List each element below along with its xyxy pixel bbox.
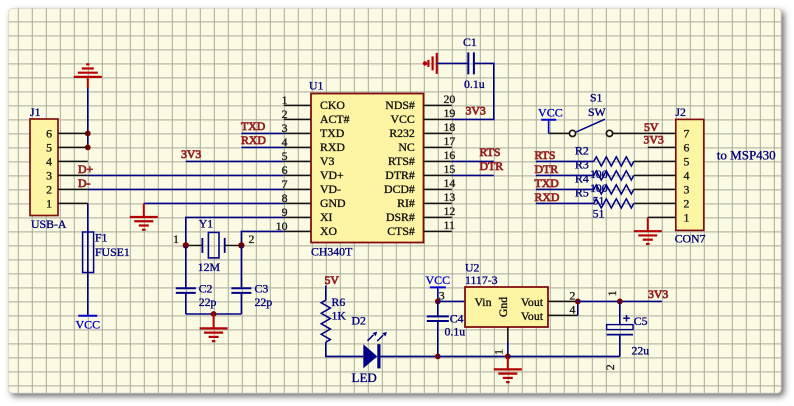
ground	[634, 231, 662, 244]
svg-text:2: 2	[683, 197, 689, 211]
svg-text:1K: 1K	[332, 309, 347, 323]
svg-text:18: 18	[444, 120, 456, 134]
svg-text:RTS#: RTS#	[388, 154, 415, 168]
svg-text:4: 4	[570, 302, 576, 316]
svg-text:1: 1	[683, 211, 689, 225]
svg-text:3: 3	[439, 288, 445, 302]
crystal Y1	[173, 217, 255, 274]
wire VCC from J1 pin 1	[87, 203, 89, 315]
ground stem	[647, 217, 649, 231]
svg-text:22u: 22u	[632, 343, 650, 357]
svg-text:7: 7	[282, 177, 288, 191]
power port VCC	[75, 316, 100, 332]
wire	[634, 188, 648, 190]
connector J1	[30, 105, 88, 231]
wire	[240, 245, 242, 288]
wire RXD	[536, 202, 594, 204]
resistor R2 100	[575, 143, 634, 181]
svg-text:R5: R5	[575, 185, 589, 199]
svg-text:D+: D+	[78, 162, 94, 176]
svg-text:DTR: DTR	[535, 162, 559, 176]
svg-text:13: 13	[444, 190, 456, 204]
svg-text:11: 11	[444, 218, 455, 232]
svg-text:to MSP430: to MSP430	[717, 147, 776, 162]
svg-text:Vout: Vout	[521, 309, 544, 323]
svg-text:5V: 5V	[325, 273, 340, 287]
svg-text:12M: 12M	[198, 260, 221, 274]
svg-text:2: 2	[603, 364, 617, 370]
ground (rotated)	[423, 53, 437, 74]
junction	[617, 299, 623, 305]
svg-text:3V3: 3V3	[644, 133, 664, 147]
svg-text:S1: S1	[590, 90, 603, 104]
junction	[575, 299, 581, 305]
wire	[326, 342, 364, 356]
junction	[85, 131, 91, 137]
svg-text:Vin: Vin	[475, 295, 492, 309]
wire	[438, 355, 508, 357]
junction	[238, 242, 244, 248]
svg-text:17: 17	[444, 134, 456, 148]
svg-text:1117-3: 1117-3	[465, 273, 498, 287]
wire TXD	[536, 188, 594, 190]
wire GND	[144, 202, 284, 204]
wire	[325, 286, 327, 301]
svg-text:VD+: VD+	[320, 168, 344, 182]
wire	[634, 202, 648, 204]
svg-text:GND: GND	[320, 196, 346, 210]
ground stem	[507, 356, 509, 369]
svg-text:TXD: TXD	[320, 126, 345, 140]
svg-text:V3: V3	[320, 154, 335, 168]
svg-text:CKO: CKO	[320, 98, 345, 112]
svg-text:RTS: RTS	[535, 148, 556, 162]
power port VCC	[425, 273, 450, 302]
wire 3V3 out	[578, 300, 662, 302]
svg-text:0.1u: 0.1u	[445, 324, 466, 338]
svg-text:14: 14	[444, 176, 456, 190]
svg-text:C5: C5	[634, 314, 648, 328]
wire 5V	[613, 132, 648, 134]
svg-text:2: 2	[570, 288, 576, 302]
svg-text:4: 4	[683, 169, 689, 183]
svg-text:6: 6	[282, 163, 288, 177]
svg-text:CH340T: CH340T	[311, 245, 353, 259]
capacitor C2	[176, 282, 217, 309]
svg-text:XI: XI	[320, 210, 333, 224]
capacitor C5 22u	[603, 290, 649, 370]
wire	[508, 355, 620, 357]
wire	[634, 174, 648, 176]
svg-text:2: 2	[282, 107, 288, 121]
wire DTR	[536, 174, 594, 176]
svg-text:1: 1	[173, 232, 179, 246]
wire RTS	[452, 160, 494, 162]
wire D+	[88, 174, 284, 176]
svg-text:22p: 22p	[255, 295, 273, 309]
resistor R5 51	[575, 185, 634, 220]
power port VCC	[538, 105, 563, 133]
ground stem	[213, 314, 215, 328]
wire	[185, 245, 187, 288]
svg-text:USB-A: USB-A	[31, 217, 67, 231]
svg-text:U1: U1	[309, 79, 324, 93]
svg-text:TXD: TXD	[241, 119, 266, 133]
wire	[437, 321, 439, 356]
svg-text:R232: R232	[389, 126, 415, 140]
svg-text:VCC: VCC	[538, 105, 563, 119]
svg-text:CTS#: CTS#	[387, 224, 415, 238]
resistor R3 100	[575, 157, 634, 195]
wire XO	[241, 231, 283, 245]
junction	[85, 145, 91, 151]
svg-text:6: 6	[46, 127, 52, 141]
regulator U2 1117-3	[439, 260, 578, 355]
resistor R6 1K	[321, 295, 346, 342]
svg-text:VD-: VD-	[320, 182, 341, 196]
svg-text:1: 1	[492, 349, 506, 355]
svg-text:2: 2	[46, 183, 52, 197]
svg-text:5: 5	[46, 141, 52, 155]
wire	[577, 301, 579, 315]
wire	[438, 300, 465, 302]
wire	[437, 301, 439, 316]
svg-text:0.1u: 0.1u	[464, 77, 485, 91]
junction	[505, 354, 511, 360]
svg-text:VCC: VCC	[75, 318, 100, 332]
svg-text:R4: R4	[575, 171, 589, 185]
wire	[452, 63, 494, 119]
junction	[183, 242, 189, 248]
svg-text:C1: C1	[463, 35, 477, 49]
svg-text:XO: XO	[320, 224, 338, 238]
capacitor C1	[463, 35, 485, 91]
wire	[240, 293, 242, 314]
wire	[87, 88, 89, 147]
connector J2	[648, 105, 706, 245]
svg-text:D-: D-	[78, 176, 91, 190]
svg-text:5: 5	[683, 155, 689, 169]
svg-text:3: 3	[683, 183, 689, 197]
wire	[437, 62, 469, 64]
svg-text:VCC: VCC	[391, 112, 415, 126]
svg-text:22p: 22p	[199, 295, 217, 309]
svg-text:C3: C3	[255, 282, 269, 296]
svg-text:D2: D2	[352, 313, 367, 327]
svg-text:Gnd: Gnd	[496, 297, 510, 317]
svg-text:20: 20	[444, 92, 456, 106]
svg-text:RI#: RI#	[397, 196, 415, 210]
svg-text:F1: F1	[95, 231, 108, 245]
svg-text:RTS: RTS	[480, 145, 501, 159]
capacitor C4	[427, 312, 465, 339]
svg-text:3V3: 3V3	[181, 147, 201, 161]
svg-text:RXD: RXD	[535, 190, 560, 204]
svg-text:SW: SW	[588, 105, 607, 119]
svg-text:DSR#: DSR#	[386, 210, 415, 224]
svg-text:Y1: Y1	[199, 217, 214, 231]
ground stem	[143, 203, 145, 217]
svg-text:FUSE1: FUSE1	[95, 245, 130, 259]
svg-text:J1: J1	[30, 105, 41, 119]
wire RTS	[536, 160, 594, 162]
svg-text:NDS#: NDS#	[385, 98, 415, 112]
switch S1	[569, 90, 612, 136]
svg-text:DTR#: DTR#	[385, 168, 415, 182]
svg-text:LED: LED	[352, 370, 377, 385]
wire TXD	[241, 132, 283, 134]
svg-text:R6: R6	[332, 295, 346, 309]
wire	[380, 355, 438, 357]
junction	[435, 354, 441, 360]
svg-text:NC: NC	[398, 140, 415, 154]
svg-text:19: 19	[444, 106, 456, 120]
svg-text:Vout: Vout	[521, 295, 544, 309]
ground	[74, 64, 102, 77]
svg-text:12: 12	[444, 204, 456, 218]
svg-text:1: 1	[46, 197, 52, 211]
svg-text:R2: R2	[575, 143, 589, 157]
wire	[507, 342, 509, 356]
svg-text:7: 7	[683, 127, 689, 141]
svg-text:VCC: VCC	[425, 273, 450, 287]
LED D2	[352, 313, 387, 385]
svg-text:1: 1	[605, 290, 619, 296]
wire DTR	[452, 174, 494, 176]
svg-text:TXD: TXD	[535, 176, 560, 190]
svg-text:DTR: DTR	[480, 159, 504, 173]
svg-text:3V3: 3V3	[466, 104, 486, 118]
wire XI	[186, 217, 284, 245]
wire D-	[88, 188, 284, 190]
wire 3V3	[186, 160, 284, 162]
wire	[634, 160, 648, 162]
svg-text:R3: R3	[575, 157, 589, 171]
svg-text:3: 3	[46, 169, 52, 183]
svg-text:J2: J2	[675, 105, 686, 119]
resistor R4 51	[575, 171, 634, 207]
wire RXD	[241, 146, 283, 148]
wire	[185, 293, 187, 314]
ground stem	[87, 77, 89, 88]
svg-text:DCD#: DCD#	[384, 182, 415, 196]
fuse F1	[83, 231, 130, 273]
capacitor C3	[231, 282, 272, 309]
svg-text:3V3: 3V3	[648, 287, 668, 301]
IC U1 CH340T	[276, 79, 456, 259]
svg-text:4: 4	[46, 155, 52, 169]
svg-text:51: 51	[593, 207, 605, 221]
svg-text:RXD: RXD	[241, 133, 266, 147]
ground	[130, 217, 158, 230]
ground	[200, 328, 228, 341]
junction	[435, 299, 441, 305]
wire	[186, 313, 242, 315]
svg-text:RXD: RXD	[320, 140, 345, 154]
svg-text:C2: C2	[199, 282, 213, 296]
svg-text:6: 6	[683, 141, 689, 155]
svg-text:16: 16	[444, 148, 456, 162]
svg-text:15: 15	[444, 162, 456, 176]
ground	[494, 369, 522, 382]
junction	[211, 311, 217, 317]
svg-text:CON7: CON7	[675, 232, 706, 246]
svg-text:ACT#: ACT#	[320, 112, 350, 126]
svg-text:2: 2	[249, 232, 255, 246]
svg-text:1: 1	[282, 93, 288, 107]
wire	[549, 132, 570, 134]
